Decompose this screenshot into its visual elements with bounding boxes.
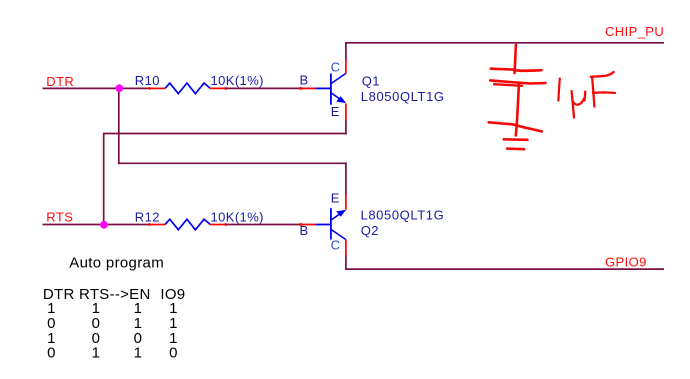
capacitor C bottom plate second stroke (494, 84, 522, 86)
wire RTS horizontal (43, 224, 150, 226)
resistor R10 (148, 83, 227, 94)
svg-text:L8050QLT1G: L8050QLT1G (361, 207, 445, 222)
resistor R12 (148, 219, 227, 230)
svg-text:1: 1 (92, 345, 100, 362)
value 1uF hand-drawn: mu (572, 91, 586, 118)
svg-text:0: 0 (169, 345, 177, 362)
wire Q1 emitter across left (104, 133, 347, 135)
svg-text:DTR: DTR (46, 74, 74, 89)
table row 2: 0 0 1 1 (47, 315, 177, 332)
wire Q1 emitter down (345, 120, 347, 135)
wire down to Q2 emitter pin (345, 162, 347, 194)
svg-text:GPIO9: GPIO9 (605, 254, 647, 269)
wire CHIP_PU rail (345, 42, 664, 44)
capacitor C bottom plate (490, 80, 545, 83)
transistor Q1 L8050QLT1G (299, 59, 346, 121)
svg-text:0: 0 (47, 345, 55, 362)
value 1uF hand-drawn: digit 1 (558, 79, 559, 101)
svg-text:Q2: Q2 (361, 223, 379, 238)
svg-text:C: C (331, 237, 341, 252)
wire DTR horizontal (43, 87, 150, 89)
svg-text:10K(1%): 10K(1%) (211, 209, 264, 224)
capacitor C (hand-drawn) top lead (515, 45, 516, 73)
svg-text:R10: R10 (135, 73, 160, 88)
svg-text:E: E (331, 191, 340, 206)
wire GPIO9 rail (345, 268, 664, 270)
svg-text:1: 1 (134, 345, 142, 362)
svg-text:RTS: RTS (46, 210, 73, 225)
svg-text:R12: R12 (135, 209, 160, 224)
capacitor C top plate (491, 69, 542, 71)
svg-text:E: E (331, 104, 340, 119)
ground bar 1 (504, 138, 528, 141)
wire R10 to Q1 base (226, 87, 301, 89)
svg-text:L8050QLT1G: L8050QLT1G (361, 89, 445, 104)
junction RTS node (100, 221, 108, 229)
svg-text:B: B (300, 223, 309, 238)
svg-text:Q1: Q1 (362, 73, 380, 88)
ground stroke long (489, 122, 542, 131)
ground bar 2 (507, 147, 524, 150)
wire Q1 collector up (345, 43, 347, 59)
svg-text:Auto program: Auto program (69, 254, 164, 271)
transistor Q2 L8050QLT1G (299, 194, 346, 255)
junction DTR node (115, 84, 123, 92)
svg-text:B: B (300, 72, 309, 87)
wire R12 to Q2 base (226, 224, 301, 226)
table row 1: 1 1 1 1 (47, 300, 177, 317)
svg-text:CHIP_PU: CHIP_PU (605, 24, 664, 39)
value 1uF hand-drawn: F (591, 72, 615, 107)
table row 4: 0 1 1 0 (47, 345, 177, 362)
svg-text:C: C (331, 60, 341, 75)
wire cross to Q2 emitter (118, 162, 346, 164)
capacitor C bottom lead (516, 84, 519, 135)
svg-text:10K(1%): 10K(1%) (211, 73, 264, 88)
wire Q2 collector down (345, 255, 347, 269)
wire down to RTS junction (103, 133, 105, 225)
wire DTR junction down (118, 88, 120, 164)
table row 3: 1 0 0 1 (47, 330, 177, 347)
